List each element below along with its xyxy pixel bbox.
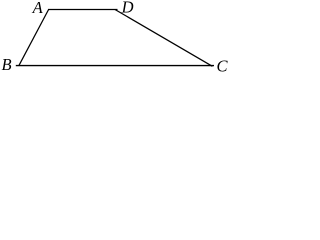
svg-text:B: B — [2, 55, 12, 72]
side AD (top) — [48, 9, 118, 11]
side AB (left slant) — [19, 10, 49, 66]
svg-text:C: C — [217, 57, 229, 73]
svg-text:A: A — [32, 0, 44, 17]
side BC (bottom) — [16, 65, 214, 67]
svg-text:D: D — [121, 0, 134, 16]
side DC (right slant) — [115, 10, 212, 67]
